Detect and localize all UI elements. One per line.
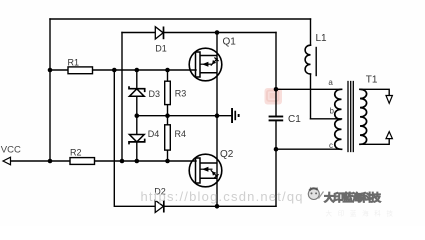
svg-text:C1: C1 (288, 114, 301, 125)
svg-text:T1: T1 (366, 75, 378, 86)
svg-text:D3: D3 (149, 89, 161, 99)
svg-text:R3: R3 (175, 89, 187, 99)
svg-text:Q2: Q2 (220, 149, 234, 160)
svg-text:https://blog.csdn.net/qq: https://blog.csdn.net/qq (141, 189, 304, 204)
svg-text:R1: R1 (68, 58, 80, 68)
svg-text:VCC: VCC (1, 144, 21, 155)
svg-text:D4: D4 (148, 129, 160, 139)
svg-text:大印蓝海科技: 大印蓝海科技 (324, 191, 381, 204)
svg-text:b: b (330, 107, 335, 116)
svg-text:Q1: Q1 (223, 37, 237, 48)
svg-text:c: c (329, 141, 333, 150)
svg-text:a: a (328, 78, 333, 87)
svg-text:R4: R4 (175, 129, 187, 139)
svg-text:大印蓝海科技: 大印蓝海科技 (326, 209, 399, 218)
svg-text:D1: D1 (155, 44, 167, 54)
svg-text:L1: L1 (316, 33, 328, 44)
svg-text:R2: R2 (70, 148, 82, 158)
